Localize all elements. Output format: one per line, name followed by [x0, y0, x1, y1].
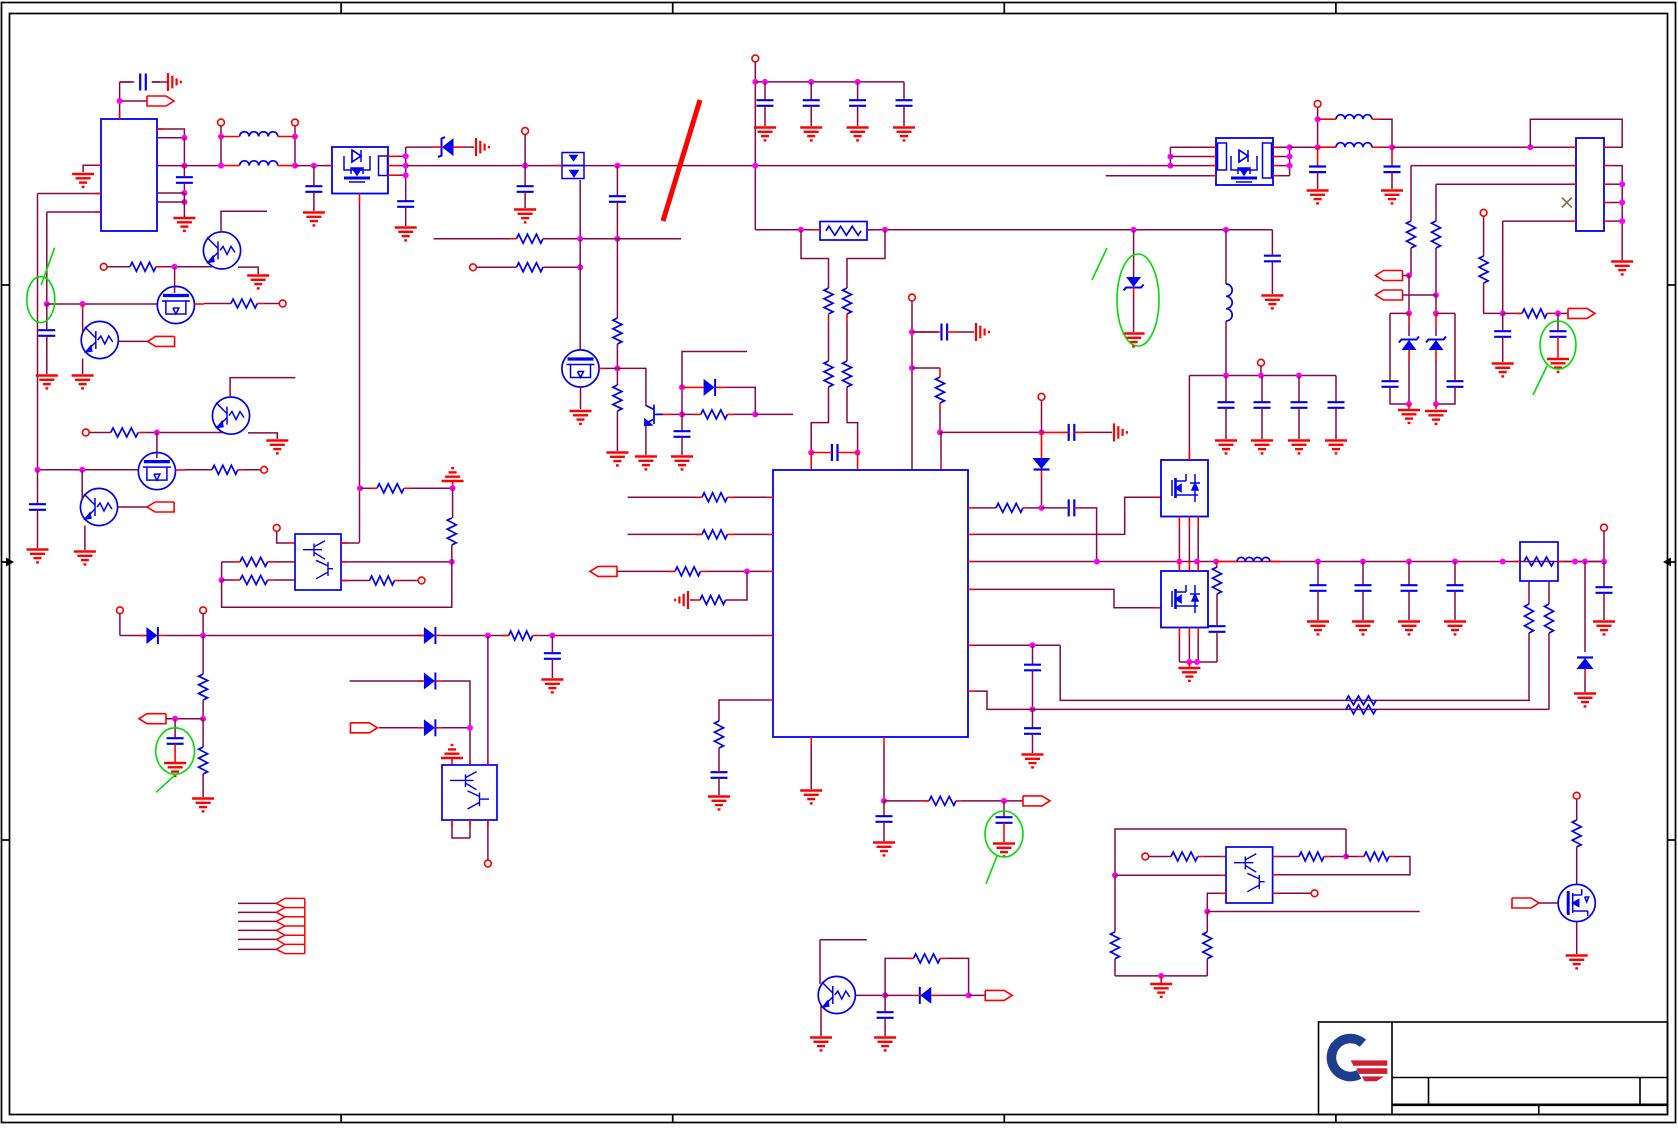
resistor R29 [240, 557, 268, 566]
terminal [1038, 394, 1045, 401]
wire [580, 387, 582, 409]
junction [1406, 401, 1412, 407]
resistor R14 [700, 596, 726, 605]
right pins [1273, 146, 1279, 148]
wire bottom-left pin [719, 700, 767, 721]
flipped ground [441, 745, 463, 758]
wire [754, 62, 756, 230]
port arrow [985, 990, 1012, 1000]
terminal [1142, 853, 1149, 860]
resistor R43 [1572, 820, 1581, 847]
wire [1225, 321, 1227, 376]
resistor R12 [702, 530, 727, 539]
capacitor C12 [832, 444, 838, 461]
wire [1576, 847, 1578, 885]
ground [1215, 441, 1237, 454]
capacitor C35 [1406, 559, 1412, 565]
bottom pins [1178, 628, 1180, 638]
wire [157, 165, 184, 167]
wire emitter [248, 433, 277, 439]
pin stub bottom [359, 194, 361, 204]
wire [442, 635, 509, 637]
green leader line [1533, 366, 1547, 395]
wire [166, 718, 203, 720]
resistor R17 [996, 503, 1023, 512]
pin stub [968, 533, 974, 535]
capacitor C17 in circle [1003, 801, 1005, 817]
resistor row [434, 238, 517, 240]
wire [202, 636, 204, 675]
junction [577, 264, 583, 270]
capacitor C41 in circle [174, 719, 176, 739]
sense resistor box PR1 [820, 222, 867, 241]
junction [909, 329, 915, 335]
border zone ticks right [1668, 284, 1676, 286]
wire [755, 413, 793, 415]
pin stub [968, 561, 974, 563]
connector J1 [1576, 138, 1604, 231]
wire [1435, 248, 1437, 295]
wire [81, 470, 83, 500]
transistor Q11 circle [203, 232, 240, 269]
pin stubs right [388, 155, 400, 157]
port arrow [1023, 796, 1050, 806]
wire [157, 201, 184, 203]
capacitor C5 [524, 166, 526, 187]
terminal [218, 119, 225, 126]
resistor R30 [240, 576, 268, 585]
resistor R33 [447, 518, 456, 545]
ground [1611, 262, 1633, 275]
junction [1039, 505, 1045, 511]
wire [940, 431, 1042, 433]
wire [1390, 312, 1409, 314]
wire [1149, 856, 1171, 858]
wire [1041, 400, 1043, 432]
wire [628, 533, 702, 535]
wire diode row2 [350, 680, 423, 682]
wire [238, 948, 276, 950]
wire [46, 212, 48, 304]
capacitor C10 [855, 79, 861, 85]
port arrow [1376, 271, 1403, 281]
inductor L3 [1225, 230, 1227, 284]
junction [181, 135, 187, 141]
wire [1207, 911, 1419, 913]
ground [1022, 755, 1044, 768]
wire [487, 820, 489, 860]
border center arrow left [2, 561, 9, 563]
wire [238, 938, 276, 940]
resistor R20 [1479, 256, 1488, 283]
junction [1555, 310, 1561, 316]
wire [811, 387, 828, 453]
sense resistors [1346, 696, 1376, 705]
transistor Q17 circle [818, 976, 855, 1013]
ground [1398, 622, 1420, 635]
green circle annotation [1540, 321, 1576, 369]
border zone ticks top [340, 3, 342, 14]
wire [1179, 661, 1217, 663]
resistor R38 [1171, 852, 1198, 861]
wire [1041, 477, 1043, 508]
capacitor C32 [1216, 594, 1218, 626]
wire resistor bypass [885, 958, 913, 995]
resistor R23 [1525, 604, 1534, 633]
green leader line [1092, 248, 1107, 280]
wire [1576, 799, 1578, 820]
wire [183, 193, 185, 217]
mosfet Q7 circle [562, 350, 599, 387]
junction [172, 264, 178, 270]
port arrow [350, 723, 377, 733]
wire [1330, 856, 1346, 858]
wire [1410, 166, 1412, 221]
capacitor C25 [1264, 256, 1281, 262]
wire [718, 748, 720, 770]
wire [1484, 283, 1503, 313]
ground [993, 844, 1015, 857]
title block frame [1319, 1022, 1668, 1115]
wire [221, 211, 267, 232]
junction [1406, 310, 1412, 316]
wire [1106, 175, 1210, 177]
wire [579, 239, 581, 350]
wire base [663, 413, 670, 415]
junction [1500, 559, 1506, 565]
pin stub [968, 690, 974, 692]
wire [238, 920, 276, 922]
resistor R35 [199, 674, 208, 700]
wire [828, 314, 830, 322]
capacitor C15 [711, 772, 728, 778]
resistor R18 [1407, 221, 1416, 248]
capacitor C29 [1454, 313, 1456, 381]
capacitor C7 [681, 414, 683, 431]
wire [1553, 312, 1568, 314]
resistor R27 [111, 428, 139, 437]
resistor R6 [824, 288, 833, 314]
wire [820, 939, 867, 941]
pin stub [157, 128, 163, 130]
ground [810, 1038, 832, 1051]
junction [614, 236, 620, 242]
border center arrow right [1669, 561, 1676, 563]
junction [1094, 559, 1100, 565]
resistor R28 [212, 465, 238, 474]
optocoupler U3 [295, 534, 341, 590]
wire [1169, 147, 1171, 165]
pin stub gate [599, 367, 605, 369]
ground [1492, 364, 1514, 377]
wire [341, 561, 452, 563]
wire loop over connector [1530, 119, 1622, 147]
port arrow [1568, 308, 1595, 318]
wire [202, 700, 204, 719]
wire [452, 820, 470, 838]
ground [1251, 441, 1273, 454]
wire [962, 800, 1023, 802]
sense tap right [847, 230, 885, 288]
dual transistor U5 [1226, 847, 1273, 903]
wire [1115, 874, 1220, 876]
wire [195, 303, 205, 305]
wire [1029, 507, 1042, 509]
wire [969, 994, 986, 996]
fuse box F1 [1520, 542, 1558, 581]
wire diode line [552, 635, 767, 637]
wire [1170, 156, 1210, 158]
wire emitter [238, 267, 258, 274]
wire [1502, 221, 1504, 313]
capacitor C24 [1335, 376, 1337, 403]
wire main VIN [184, 165, 221, 167]
junction [1500, 310, 1506, 316]
transistor Q13 circle [81, 321, 118, 358]
wire [157, 137, 184, 139]
ground [303, 213, 325, 226]
terminal [117, 607, 124, 614]
zener D6 [1435, 313, 1437, 326]
terminal [273, 525, 280, 532]
ground [1574, 694, 1596, 707]
wire [341, 580, 370, 582]
junction [357, 485, 363, 491]
wire [295, 165, 332, 167]
junction [80, 301, 86, 307]
green leader line [986, 856, 997, 884]
resistor R5 [701, 410, 728, 419]
capacitor C3 [305, 186, 322, 192]
wire [107, 266, 130, 268]
capacitor C14 [1069, 424, 1075, 441]
diode D9 [424, 627, 435, 644]
capacitor C39 [37, 470, 39, 504]
port arrow [590, 566, 617, 576]
terminal [909, 294, 916, 301]
chassis ground [947, 331, 958, 333]
chassis ground [690, 599, 694, 601]
junction [154, 430, 160, 436]
diode D12 [919, 987, 921, 1004]
wire [341, 542, 359, 544]
capacitor C33 [1315, 559, 1321, 565]
wire [83, 165, 101, 172]
resistor R8 [824, 361, 833, 387]
wire [38, 469, 139, 471]
wire [1503, 312, 1522, 314]
junction [219, 577, 225, 583]
wire system rail [974, 561, 1604, 563]
capacitor C8 [762, 79, 768, 85]
ground [36, 376, 58, 389]
diode D8 [146, 627, 157, 644]
junction [882, 227, 888, 233]
resistor R21 [1522, 309, 1547, 318]
wire [238, 911, 276, 913]
inductor L1 [240, 132, 278, 137]
wire [221, 562, 223, 580]
wire [616, 411, 618, 451]
harness connector [276, 898, 304, 953]
wire gate [174, 267, 176, 293]
resistor R11 [702, 493, 727, 502]
junction [181, 163, 187, 169]
resistor R2 [613, 385, 622, 411]
resistor R25 [130, 262, 156, 271]
wire [681, 387, 683, 414]
wire emitter [82, 359, 84, 375]
capacitor C36 [1452, 559, 1458, 565]
resistor R19 [1432, 221, 1441, 248]
junction [1315, 144, 1321, 150]
terminal [522, 128, 529, 135]
junction [181, 199, 187, 205]
terminal [1480, 209, 1487, 216]
pin stub [767, 533, 773, 535]
ground [1352, 622, 1374, 635]
wire [1411, 165, 1570, 167]
wire emitter [820, 1006, 822, 1036]
resistor R40 [1364, 852, 1389, 861]
junction [1001, 798, 1007, 804]
wire [524, 134, 526, 165]
ground [1566, 956, 1588, 969]
wire [1564, 561, 1604, 563]
sense tap left [801, 230, 829, 288]
green circle annotation [27, 277, 55, 323]
resistor R13 [675, 567, 701, 576]
wire [543, 238, 681, 240]
junction [1131, 227, 1137, 233]
wire gate [156, 433, 158, 459]
wire [1273, 892, 1312, 894]
green leader line [156, 774, 176, 792]
wire [89, 432, 111, 434]
wire [616, 344, 618, 385]
wire [884, 800, 929, 802]
ground [1444, 622, 1466, 635]
junction [937, 429, 943, 435]
wire [442, 681, 470, 765]
ground [72, 174, 94, 187]
wire [120, 100, 147, 102]
wire [1435, 295, 1437, 313]
wire [1260, 366, 1262, 376]
inductor L4 [1336, 115, 1372, 120]
mosfet block Q1 [332, 147, 388, 194]
port arrow [1512, 898, 1539, 908]
wire [238, 929, 276, 931]
ground [1307, 191, 1329, 204]
chassis ground [462, 146, 474, 148]
wire emitter [645, 425, 647, 456]
system rail inductor L6 [1237, 557, 1270, 561]
junction [449, 559, 455, 565]
green circle annotation [985, 811, 1023, 857]
Quanta logo red stripes [1351, 1060, 1388, 1065]
capacitor C4 [405, 193, 407, 202]
resistor R37 [914, 954, 941, 963]
green leader line [41, 248, 55, 285]
wire [974, 644, 1060, 646]
wire [230, 378, 295, 397]
junction [752, 411, 758, 417]
wire [202, 614, 204, 636]
wire [1408, 276, 1410, 314]
IC U2 bottom stubs [810, 737, 812, 745]
capacitor C42 [884, 995, 886, 1012]
wire [47, 211, 101, 213]
capacitor C37 [1603, 562, 1605, 588]
ground [164, 763, 186, 776]
IC U1 [101, 119, 157, 231]
pin stub [968, 644, 974, 646]
wire [1576, 922, 1578, 954]
resistor R1 [613, 318, 622, 344]
junction [450, 485, 456, 491]
capacitor C19 [1032, 645, 1034, 664]
resistor R31 [370, 576, 395, 585]
ground [671, 457, 693, 470]
ground [1381, 191, 1403, 204]
sense legs [1528, 581, 1530, 604]
resistor R3 [517, 234, 544, 243]
wire gate Q4 [617, 368, 646, 406]
chassis power symbol [442, 468, 464, 481]
capacitor C22 [1261, 376, 1263, 403]
junction [1619, 181, 1625, 187]
capacitor C34 [1360, 559, 1366, 565]
wire [1392, 146, 1570, 148]
wire [1483, 216, 1485, 256]
junction [1406, 273, 1412, 279]
ground [173, 218, 195, 231]
capacitor C40 [551, 636, 553, 654]
port arrow [1376, 290, 1403, 300]
pin stub top [1188, 451, 1190, 460]
resistor R22 [1213, 559, 1219, 565]
resistor R15 [715, 721, 724, 748]
capacitor C18 [1069, 499, 1075, 516]
ground [395, 228, 417, 241]
ground [800, 128, 822, 141]
mosfet block Q8 [1216, 138, 1273, 185]
wire [1207, 893, 1226, 911]
wire [164, 635, 424, 637]
diode D10 [424, 673, 435, 690]
pin stubs [1570, 146, 1576, 148]
wire [616, 239, 618, 318]
junction [522, 163, 528, 169]
junction [200, 633, 206, 639]
top pins [1178, 562, 1180, 572]
junction [1030, 642, 1036, 648]
ground [1188, 662, 1190, 667]
junction [614, 365, 620, 371]
capacitor C30 [1502, 313, 1504, 331]
wire [1436, 183, 1570, 185]
resistor R42 [1203, 932, 1212, 959]
junction [1433, 292, 1439, 298]
wire [974, 589, 1155, 607]
terminal [100, 263, 107, 270]
wire [946, 958, 968, 995]
diode D7 [1584, 562, 1586, 653]
wire [119, 82, 121, 119]
ground [247, 276, 269, 289]
junction [403, 153, 409, 159]
